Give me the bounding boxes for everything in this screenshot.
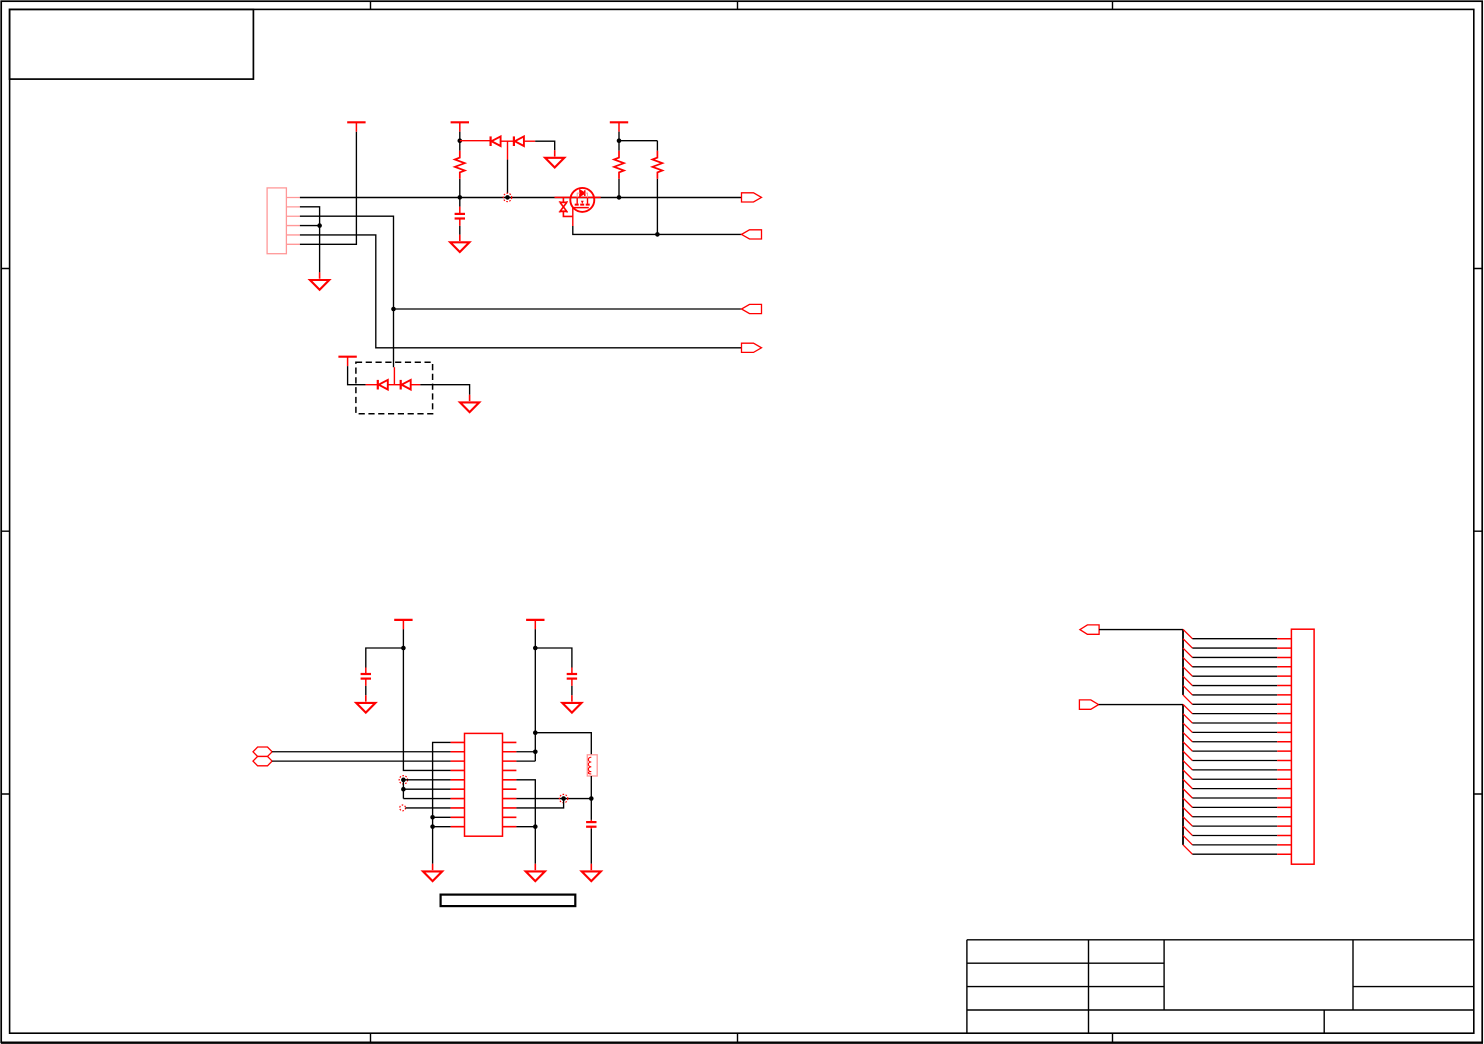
wire D3 anode lead	[366, 384, 378, 386]
wire U1 pin R2	[516, 751, 535, 753]
ground G6	[423, 864, 442, 881]
resistor R1	[455, 151, 465, 179]
wire pin4	[300, 225, 320, 227]
hex port H1	[253, 747, 272, 757]
wire R1 leads	[459, 141, 461, 198]
ground G9	[526, 864, 545, 881]
wire U1 pin R10	[516, 826, 535, 828]
wire U1 pin6	[403, 788, 450, 790]
ground G2	[450, 235, 469, 252]
ground G8	[582, 864, 601, 881]
wire D3 to ground	[420, 385, 469, 395]
junction R1 top	[458, 138, 463, 143]
capacitor C2	[361, 668, 371, 686]
ground G7	[562, 695, 581, 712]
wire C1 leads	[459, 197, 461, 234]
junction FB branch	[533, 730, 538, 735]
port PL (in)	[1080, 625, 1099, 634]
port P4 (out)	[742, 343, 762, 352]
port P3 (in)	[742, 304, 762, 313]
junction R1 bottom	[458, 195, 463, 200]
power VCC5	[394, 620, 412, 629]
ground G1	[310, 272, 329, 289]
wire R3 leads	[656, 141, 658, 235]
junction pin6	[401, 787, 406, 792]
port P1 (out)	[742, 193, 762, 202]
capacitor C1	[455, 207, 465, 226]
ground G4	[460, 395, 479, 412]
label box	[441, 895, 576, 907]
wire bus entries J2	[1183, 629, 1192, 854]
wire R2 leads	[618, 141, 620, 198]
junction C3 branch	[533, 646, 538, 651]
power VCC3	[610, 122, 628, 131]
wire D3 center tap	[393, 367, 395, 385]
resistor R2	[614, 151, 624, 179]
wire D3 mid	[388, 384, 401, 386]
wire VCC6 rail	[534, 629, 536, 761]
diode D3a	[378, 380, 388, 390]
wire VCC4 to D3	[348, 366, 366, 385]
wire U1 pin5	[403, 779, 450, 781]
node circle C at U1 pin8	[400, 805, 406, 811]
wire to C2	[366, 648, 404, 668]
diode D2	[514, 136, 524, 146]
wire R2/R3 tops	[619, 140, 657, 142]
wire C2 to ground	[365, 686, 367, 695]
wire D1 to D2	[501, 140, 514, 142]
wire R1 top to D1	[460, 140, 491, 142]
junction R2 bottom	[617, 195, 622, 200]
wire H2 to U1 pin3	[272, 760, 451, 762]
wire pin1 net VBUS	[300, 197, 742, 199]
power VCC2	[451, 122, 469, 131]
resistor R3	[652, 151, 662, 179]
wire pin5-pin7 tie	[402, 780, 404, 799]
wire D2 to ground	[535, 141, 555, 150]
wire U1 pin R3	[516, 760, 535, 762]
wire U1 pin R5 to ground	[516, 780, 535, 864]
wire U1 pin8	[406, 807, 451, 809]
wire VCC3 down	[618, 132, 620, 141]
power VCC6	[526, 620, 544, 629]
wire Q1 gate red	[572, 208, 574, 226]
wire port PR to bus2	[1099, 704, 1183, 706]
hex port H2	[253, 756, 272, 765]
ground G3	[545, 150, 564, 167]
node circle B at U1 pin5	[399, 776, 407, 784]
wire net3 to port P3	[394, 308, 742, 310]
node circle D on R7 net	[559, 794, 567, 802]
wire to FB1	[535, 733, 591, 755]
power VCC1	[347, 122, 365, 131]
wire VCC2 to R1	[459, 132, 461, 141]
IC U1	[451, 733, 517, 836]
wire pin2 to ground	[300, 207, 320, 273]
wire VCC5 to U1 pin4	[403, 629, 450, 770]
wire U1 pin7	[403, 798, 450, 800]
junction pin10	[430, 824, 435, 829]
junction R7/FB rail	[589, 796, 594, 801]
connector J1	[267, 188, 300, 254]
wire pin3 vertical	[300, 216, 394, 367]
diode D3b	[401, 380, 411, 390]
wire H1 to U1 pin2	[272, 751, 451, 753]
wire C3 to ground	[571, 686, 573, 695]
wire U1 pin9	[433, 816, 451, 818]
wire U1 pin R8	[516, 799, 563, 808]
wire pin5 to port P4	[300, 235, 742, 348]
wire U1 pin1 to ground rail	[433, 742, 451, 863]
junction U1 pin R10	[533, 824, 538, 829]
junction U1 pin R2	[533, 749, 538, 754]
wire TVS tap red	[507, 141, 509, 159]
wire D2 out	[524, 140, 535, 142]
wire TVS tap	[507, 160, 509, 194]
wire bus trunk 1	[1182, 630, 1184, 695]
wire D3 out red	[411, 384, 421, 386]
dual diode D3 module box	[356, 362, 433, 414]
capacitor C4	[586, 820, 596, 829]
wire rows J2	[1192, 639, 1277, 855]
wire U1 pin R7 net	[516, 798, 591, 800]
wire C4 to ground	[590, 829, 592, 864]
node circle A on VBUS	[503, 193, 511, 201]
zener Z1 gate protection	[560, 197, 573, 216]
wire FB1 to C4	[590, 776, 592, 820]
junction node pin3/net3	[391, 307, 396, 312]
diode D1	[491, 136, 501, 146]
port PR (out)	[1079, 700, 1098, 709]
transistor Q1 MOSFET	[555, 188, 601, 212]
junction R3 bottom	[655, 232, 660, 237]
ground G5	[356, 695, 375, 712]
capacitor C3	[567, 668, 577, 686]
ferrite bead FB1	[587, 755, 597, 776]
wire port PL to bus1	[1099, 629, 1183, 631]
junction C2 branch	[401, 646, 406, 651]
wire bus trunk 2	[1182, 705, 1184, 845]
wire pin6 to VCC	[300, 132, 357, 245]
wire to C3	[535, 648, 572, 668]
power VCC4	[338, 357, 356, 366]
connector J2	[1277, 629, 1314, 864]
port P2 (in)	[742, 230, 762, 239]
wire gate net to port P2	[573, 226, 742, 234]
junction R2 top	[617, 138, 622, 143]
junction pin4/pin2	[317, 223, 322, 228]
junction pin9	[430, 815, 435, 820]
wire U1 pin10	[433, 826, 451, 828]
